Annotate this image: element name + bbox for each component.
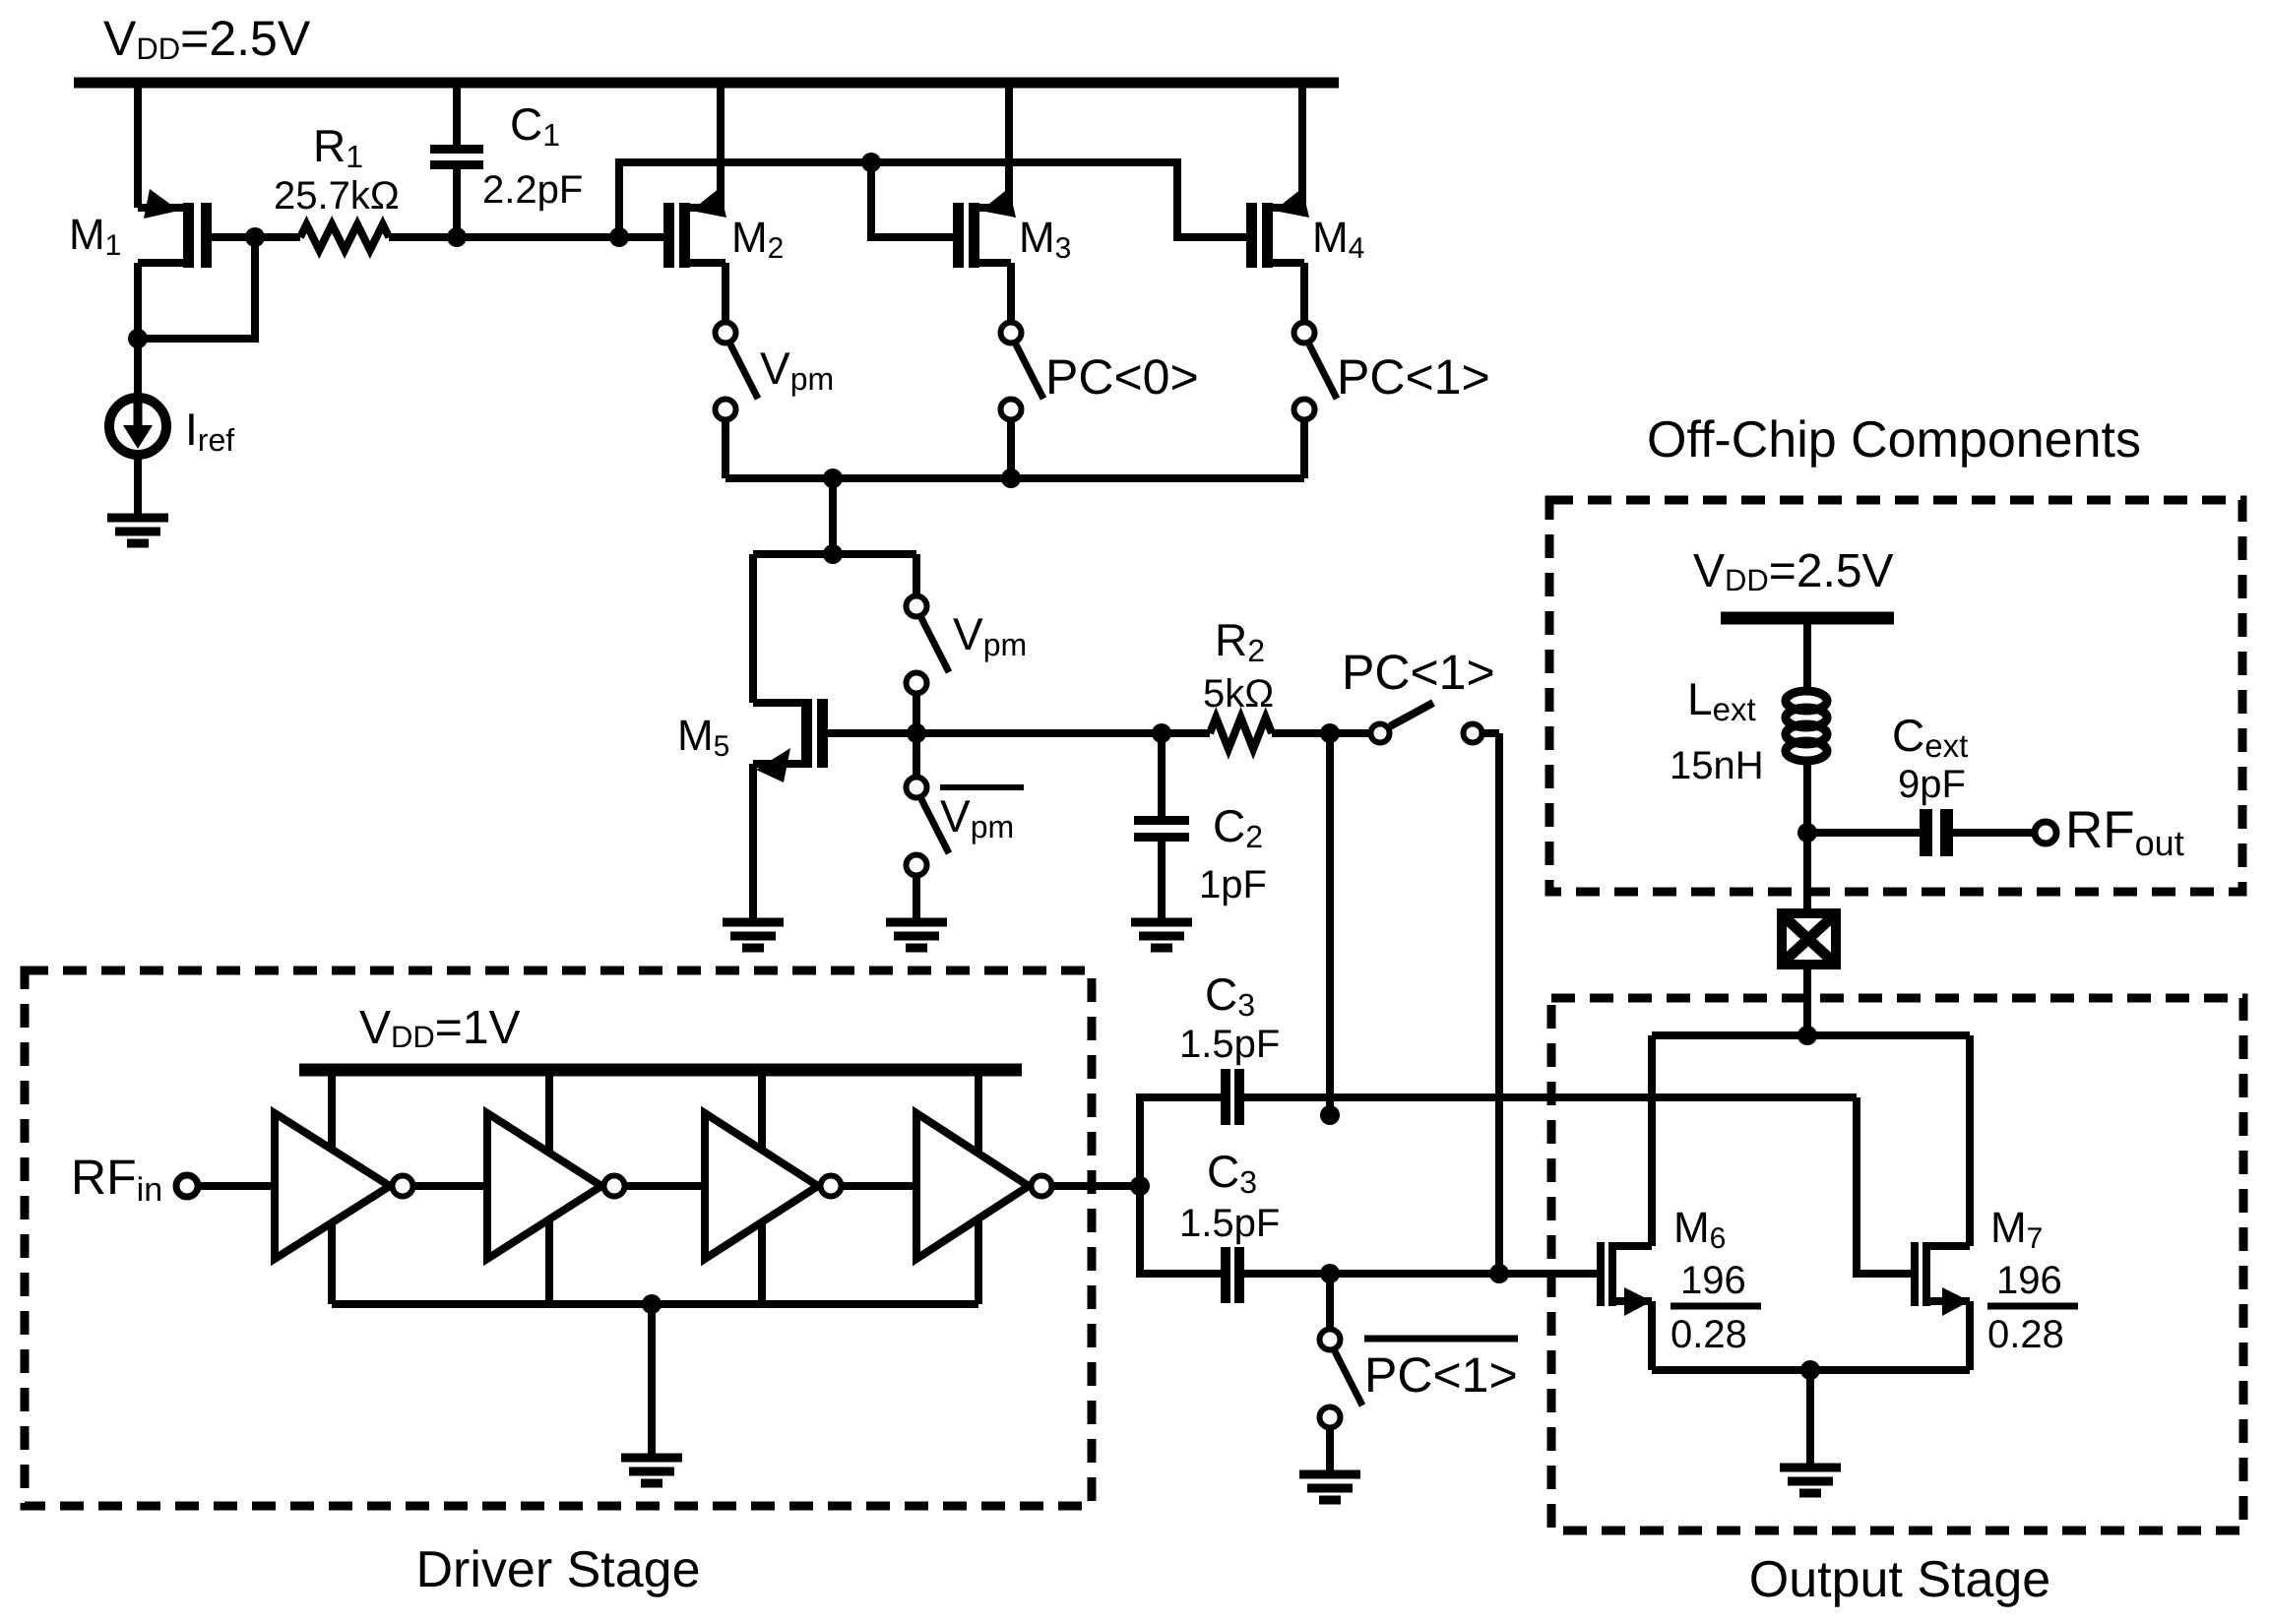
RFout terminal xyxy=(2035,801,2184,863)
wire to bond pad xyxy=(1803,833,1811,913)
transistor M2 xyxy=(663,83,784,321)
inverter 4 xyxy=(916,1113,1140,1259)
inverter 2 xyxy=(487,1113,705,1259)
wire bus to M5 node xyxy=(753,478,916,703)
ground below Iref xyxy=(107,518,168,543)
inverter supply drop wires xyxy=(332,1076,978,1304)
current source Iref xyxy=(109,339,234,518)
output drain node xyxy=(1652,1026,1970,1045)
switch PC&lt;0&gt; below M3 xyxy=(1001,323,1199,479)
svg-text:VDD=2.5V: VDD=2.5V xyxy=(1693,545,1894,597)
output stage box xyxy=(1551,998,2243,1530)
RFin terminal xyxy=(71,1150,275,1209)
svg-text:25.7kΩ: 25.7kΩ xyxy=(274,174,400,218)
svg-text:PC<1>: PC<1> xyxy=(1337,349,1490,405)
power rail VDD=1V xyxy=(299,1064,1022,1077)
svg-text:PC<1>: PC<1> xyxy=(1342,645,1495,700)
switch PC&lt;1&gt; below M4 xyxy=(1294,323,1490,479)
node at inverter output xyxy=(1130,1176,1150,1196)
svg-text:PC<1>: PC<1> xyxy=(1364,1347,1518,1403)
svg-text:1pF: 1pF xyxy=(1199,863,1267,906)
svg-text:PC<0>: PC<0> xyxy=(1045,349,1199,405)
wire R2 node to C3 top line xyxy=(1326,733,1334,1097)
wire gate node to M2 xyxy=(457,233,663,241)
transistor M5 xyxy=(677,699,1162,922)
bond pad xyxy=(1782,913,1836,965)
inductor Lext xyxy=(1670,624,1827,833)
ground below C2 xyxy=(1131,922,1192,948)
svg-text:1.5pF: 1.5pF xyxy=(1179,1023,1280,1066)
transistor M7 xyxy=(1857,1035,2078,1370)
svg-text:5kΩ: 5kΩ xyxy=(1203,672,1274,716)
VDD bar (off-chip) xyxy=(1721,612,1894,625)
ground below output stage xyxy=(1780,1468,1841,1493)
svg-text:Driver Stage: Driver Stage xyxy=(416,1541,701,1598)
capacitor C1 xyxy=(430,83,583,247)
switch PC&lt;1&gt; (R2 bypass) xyxy=(1342,645,1499,1274)
ground below Vpm-bar xyxy=(886,922,947,948)
resistor R2 xyxy=(1162,614,1368,749)
off-chip components box xyxy=(1549,500,2242,892)
transistor M1 xyxy=(69,83,265,348)
output source rail xyxy=(1652,1360,1970,1468)
switch Vpm-bar (gate pulldown) xyxy=(907,733,1025,922)
transistor M3 xyxy=(953,83,1071,321)
resistor R1 xyxy=(255,120,457,250)
svg-text:2.2pF: 2.2pF xyxy=(482,168,583,212)
capacitor C2 xyxy=(1134,723,1267,922)
inverter ground rail xyxy=(332,1294,978,1458)
svg-text:0.28: 0.28 xyxy=(1670,1313,1747,1356)
inverter 3 xyxy=(705,1113,916,1259)
driver stage box xyxy=(25,970,1092,1506)
wire pad to output stage xyxy=(1803,965,1811,1035)
switch Vpm (gate select) xyxy=(907,596,1028,744)
svg-text:0.28: 0.28 xyxy=(1987,1313,2064,1356)
switch PC&lt;1&gt;-bar xyxy=(1320,1274,1519,1474)
svg-text:Output Stage: Output Stage xyxy=(1749,1551,2050,1608)
svg-text:VDD=1V: VDD=1V xyxy=(359,1002,521,1054)
capacitor C3 (top) xyxy=(1140,968,1857,1186)
inverter 1 xyxy=(275,1113,487,1259)
svg-text:9pF: 9pF xyxy=(1898,763,1966,806)
svg-text:VDD=2.5V: VDD=2.5V xyxy=(103,11,311,66)
wire gate bus to M3 M4 xyxy=(619,153,1246,237)
wire switch bottom bus xyxy=(725,468,1304,488)
ground below driver xyxy=(621,1458,682,1483)
transistor M6 xyxy=(1597,1035,1761,1370)
svg-text:Off-Chip Components: Off-Chip Components xyxy=(1647,411,2141,468)
capacitor C3 (bottom) xyxy=(1140,1146,1597,1303)
svg-text:15nH: 15nH xyxy=(1670,744,1764,787)
svg-text:196: 196 xyxy=(1996,1259,2062,1302)
svg-text:1.5pF: 1.5pF xyxy=(1179,1202,1280,1245)
ground below PC&lt;1&gt;-bar xyxy=(1299,1474,1360,1500)
svg-text:196: 196 xyxy=(1680,1259,1746,1302)
switch Vpm below M2 xyxy=(716,323,835,479)
capacitor Cext xyxy=(1797,710,2034,856)
ground below M5 xyxy=(723,922,784,948)
power rail VDD=2.5V xyxy=(74,78,1339,89)
transistor M4 xyxy=(1246,83,1364,321)
